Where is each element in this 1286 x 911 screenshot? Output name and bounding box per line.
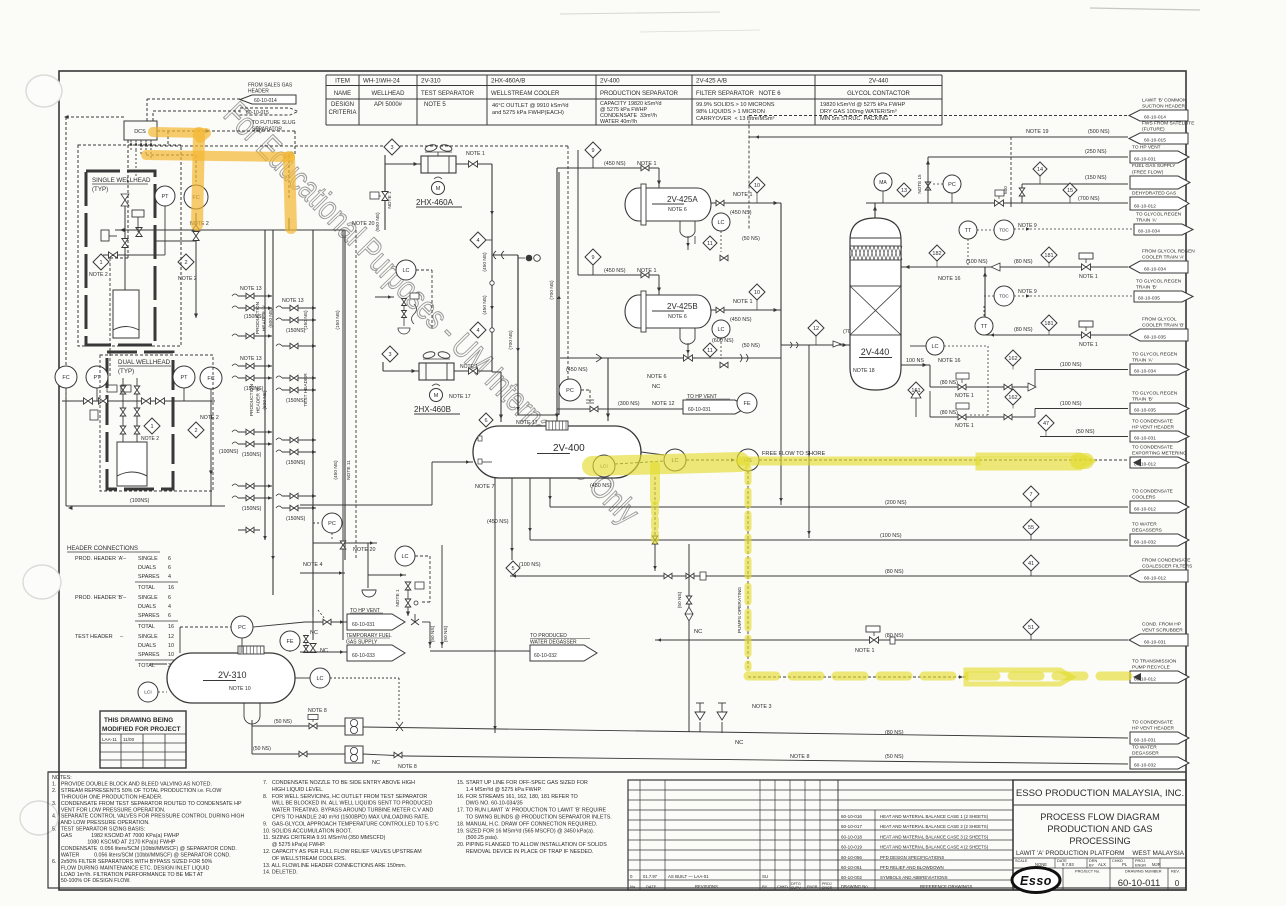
svg-text:NOTE 1: NOTE 1 — [387, 191, 393, 209]
svg-text:LC: LC — [931, 344, 938, 350]
svg-text:NOTE 18: NOTE 18 — [853, 368, 875, 374]
svg-text:(450 NS): (450 NS) — [730, 210, 752, 216]
svg-text:(600 NS): (600 NS) — [712, 338, 734, 344]
svg-text:DRN: DRN — [1089, 859, 1097, 863]
svg-text:0: 0 — [1175, 879, 1180, 888]
svg-text:ENGR: ENGR — [1135, 864, 1146, 868]
svg-text:NC: NC — [652, 384, 660, 390]
svg-text:7. CONDENSATE NOZZLE TO BE S: 7. CONDENSATE NOZZLE TO BE SIDE ENTRY AB… — [263, 780, 415, 786]
svg-text:HP VENT HEADER: HP VENT HEADER — [1132, 425, 1174, 431]
svg-text:60-10-012: 60-10-012 — [1144, 575, 1166, 581]
svg-text:(150NS): (150NS) — [286, 516, 306, 522]
svg-text:NOTE 1: NOTE 1 — [1079, 342, 1098, 348]
svg-text:BY: BY — [762, 884, 768, 889]
svg-text:11. SIZING CRITERIA 9.91 MSm³/: 11. SIZING CRITERIA 9.91 MSm³/d (350 MMS… — [263, 835, 386, 841]
svg-text:(TYP): (TYP) — [92, 186, 108, 193]
svg-text:PROJ.: PROJ. — [1135, 859, 1146, 863]
svg-text:FROM GLYCOL: FROM GLYCOL — [1142, 317, 1177, 323]
svg-text:162: 162 — [1008, 395, 1017, 401]
svg-text:TO GLYCOL REGEN: TO GLYCOL REGEN — [1132, 391, 1178, 397]
svg-text:PC: PC — [948, 182, 956, 188]
svg-text:FLOW DURING MAINTENANCE ETC. D: FLOW DURING MAINTENANCE ETC. DESIGN INLE… — [52, 865, 210, 871]
svg-text:No.: No. — [630, 884, 636, 889]
svg-text:NOTE 16: NOTE 16 — [938, 358, 960, 364]
svg-text:MJR: MJR — [1152, 862, 1161, 867]
svg-text:(600 NS): (600 NS) — [262, 390, 268, 410]
svg-text:2V-400: 2V-400 — [553, 443, 585, 454]
svg-text:19. SIZED FOR 16 MSm³/d (565 M: 19. SIZED FOR 16 MSm³/d (565 MSCFD) @ 34… — [457, 828, 594, 834]
svg-text:PRODUCTION SEPARATOR: PRODUCTION SEPARATOR — [600, 91, 679, 97]
svg-text:PC: PC — [238, 625, 246, 631]
svg-text:11: 11 — [707, 348, 713, 354]
svg-text:2. STREAM REPRESENTS 50% OF: 2. STREAM REPRESENTS 50% OF TOTAL PRODUC… — [52, 788, 221, 794]
svg-text:6: 6 — [168, 556, 171, 562]
svg-text:PROD. HEADER ‘A’–: PROD. HEADER ‘A’– — [75, 556, 126, 562]
svg-text:TO CONDENSATE: TO CONDENSATE — [1132, 445, 1173, 451]
svg-text:HEAT AND MATERIAL BALANCE CASE: HEAT AND MATERIAL BALANCE CASE 1 (2 SHEE… — [880, 814, 989, 819]
svg-text:MIN 5m STRUC. PACKING: MIN 5m STRUC. PACKING — [820, 116, 888, 122]
svg-text:DWG NO. 60-10-034/35: DWG NO. 60-10-034/35 — [457, 801, 523, 807]
svg-text:1. PROVIDE DOUBLE BLOCK AND: 1. PROVIDE DOUBLE BLOCK AND BLEED VALVIN… — [52, 781, 212, 787]
svg-text:60-10-035: 60-10-035 — [1138, 295, 1160, 301]
svg-text:TO WATER: TO WATER — [1132, 745, 1157, 751]
svg-text:60-10-031: 60-10-031 — [1134, 435, 1156, 441]
svg-text:60-10-031: 60-10-031 — [352, 622, 375, 628]
svg-text:10: 10 — [754, 183, 760, 189]
svg-text:60-10-032: 60-10-032 — [1134, 539, 1156, 545]
svg-text:FUEL GAS SUPPLY: FUEL GAS SUPPLY — [1132, 163, 1176, 169]
svg-text:181: 181 — [1044, 253, 1053, 259]
svg-text:PT: PT — [180, 375, 188, 381]
svg-text:10: 10 — [754, 290, 760, 296]
svg-text:FWS FROM SATELLITE: FWS FROM SATELLITE — [1142, 121, 1194, 127]
svg-text:NOTE 3: NOTE 3 — [752, 704, 771, 710]
svg-text:SINGLE WELLHEAD: SINGLE WELLHEAD — [92, 177, 151, 184]
svg-text:NOTES:: NOTES: — [52, 775, 72, 781]
svg-text:46°C OUTLET @ 9910 kSm³/d: 46°C OUTLET @ 9910 kSm³/d — [492, 103, 569, 109]
svg-text:16. FOR STREAMS 161, 162, 180,: 16. FOR STREAMS 161, 162, 180, 181 REFER… — [457, 794, 578, 800]
svg-text:NC: NC — [372, 760, 380, 766]
svg-text:(100NS): (100NS) — [219, 449, 239, 455]
svg-text:(450 NS): (450 NS) — [566, 367, 588, 373]
svg-text:19820 kSm³/d @ 5275 kPa FWHP: 19820 kSm³/d @ 5275 kPa FWHP — [820, 102, 906, 108]
svg-text:NOTE 5: NOTE 5 — [424, 102, 446, 108]
svg-text:NC: NC — [694, 629, 702, 635]
svg-text:(100 NS): (100 NS) — [519, 562, 541, 568]
svg-text:47: 47 — [1043, 421, 1049, 427]
svg-text:60-10-018: 60-10-018 — [841, 834, 862, 839]
svg-text:(80 NS): (80 NS) — [1014, 259, 1033, 265]
svg-text:60-10-033: 60-10-033 — [352, 653, 375, 659]
svg-text:(100 NS): (100 NS) — [1060, 401, 1082, 407]
svg-text:(80 NS): (80 NS) — [1014, 327, 1033, 333]
svg-text:(450 NS): (450 NS) — [604, 268, 626, 274]
svg-text:TT: TT — [981, 324, 988, 330]
svg-text:6: 6 — [168, 613, 171, 619]
svg-text:(450 NS): (450 NS) — [487, 519, 509, 525]
svg-text:NOTE 11: NOTE 11 — [346, 460, 352, 480]
svg-text:2V-440: 2V-440 — [869, 78, 889, 85]
svg-text:LC: LC — [316, 676, 323, 682]
svg-text:12: 12 — [813, 326, 819, 332]
svg-text:REMOVAL DEVICE IN PLACE OF TRA: REMOVAL DEVICE IN PLACE OF TRAP IF NEEDE… — [457, 849, 593, 855]
svg-text:NOTE 2: NOTE 2 — [89, 272, 108, 278]
svg-text:PL: PL — [1122, 862, 1128, 867]
svg-text:4: 4 — [476, 328, 479, 334]
svg-text:EXPORTING METERING: EXPORTING METERING — [1132, 451, 1187, 457]
svg-text:60-10-019: 60-10-019 — [841, 845, 862, 850]
svg-text:(50 NS): (50 NS) — [677, 591, 683, 608]
svg-text:Esso: Esso — [1020, 874, 1052, 888]
svg-text:60-10-034: 60-10-034 — [1138, 228, 1160, 234]
svg-text:NOTE 17: NOTE 17 — [449, 394, 471, 400]
svg-text:SCALE: SCALE — [1015, 859, 1028, 863]
svg-text:THROUGH ONE PRODUCTION HEADER.: THROUGH ONE PRODUCTION HEADER. — [52, 794, 163, 800]
svg-text:NOTE 12: NOTE 12 — [652, 401, 674, 407]
svg-text:TEST HEADER –: TEST HEADER – — [75, 634, 123, 640]
svg-text:PROD. HEADER 'B'–: PROD. HEADER 'B'– — [75, 595, 126, 601]
svg-text:NOTE 1: NOTE 1 — [637, 268, 656, 274]
svg-text:COOLER TRAIN 'A': COOLER TRAIN 'A' — [1142, 255, 1184, 261]
svg-text:10: 10 — [168, 652, 174, 658]
svg-text:HEAT AND MATERIAL BALANCE CASE: HEAT AND MATERIAL BALANCE CASE 4 (2 SHEE… — [880, 845, 989, 850]
svg-text:7: 7 — [1029, 492, 1032, 498]
svg-text:(700 NS): (700 NS) — [1078, 196, 1100, 202]
svg-text:THIS DRAWING BEING: THIS DRAWING BEING — [104, 717, 173, 724]
svg-text:60-10-015: 60-10-015 — [246, 110, 269, 116]
svg-text:NC: NC — [735, 740, 743, 746]
svg-text:LAA-11: LAA-11 — [102, 737, 117, 742]
svg-text:60-10-012: 60-10-012 — [1134, 203, 1156, 209]
svg-text:(100 NS): (100 NS) — [966, 259, 988, 265]
svg-text:TO CONDENSATE: TO CONDENSATE — [1132, 489, 1173, 495]
svg-text:(450 NS): (450 NS) — [590, 483, 612, 489]
svg-text:14. DELETED.: 14. DELETED. — [263, 870, 298, 876]
svg-text:NOTE 2: NOTE 2 — [200, 415, 219, 421]
svg-text:FC: FC — [62, 375, 69, 381]
svg-text:1: 1 — [150, 424, 153, 430]
svg-text:TDC: TDC — [999, 294, 1009, 299]
svg-text:TOTAL: TOTAL — [138, 624, 155, 630]
svg-text:SINGLE: SINGLE — [138, 556, 158, 562]
svg-text:DEGASSER: DEGASSER — [1132, 751, 1159, 757]
svg-text:TO GLYCOL REGEN: TO GLYCOL REGEN — [1136, 212, 1182, 218]
svg-text:99.9% SOLIDS > 10 MICRONS: 99.9% SOLIDS > 10 MICRONS — [696, 102, 775, 108]
svg-text:2: 2 — [184, 260, 187, 266]
svg-text:HIGH LIQUID LEVEL.: HIGH LIQUID LEVEL. — [263, 787, 324, 793]
svg-text:@ 5275 kPa(a) FWHP.: @ 5275 kPa(a) FWHP. — [263, 842, 325, 848]
svg-text:(500 NS): (500 NS) — [1088, 129, 1110, 135]
svg-text:60-10-012: 60-10-012 — [1134, 506, 1156, 512]
svg-text:(50 NS): (50 NS) — [274, 719, 292, 725]
svg-text:API 5000#: API 5000# — [374, 102, 403, 108]
svg-text:6: 6 — [484, 418, 487, 424]
svg-text:(150NS): (150NS) — [244, 386, 264, 392]
svg-text:VENT FOR LOW PRESSURE OPERATIO: VENT FOR LOW PRESSURE OPERATION. — [52, 807, 165, 813]
svg-text:98% LIQUIDS > 1 MICRON: 98% LIQUIDS > 1 MICRON — [696, 109, 765, 115]
svg-text:DUALS: DUALS — [138, 565, 156, 571]
svg-text:SUPV: SUPV — [791, 886, 801, 890]
svg-text:(FREE FLOW): (FREE FLOW) — [1132, 170, 1164, 176]
svg-text:COOLERS: COOLERS — [1132, 495, 1155, 501]
svg-text:60-10-032: 60-10-032 — [534, 653, 557, 659]
svg-text:17. TO RUN LAWIT 'A' PRODUCTIO: 17. TO RUN LAWIT 'A' PRODUCTION TO LAWIT… — [457, 808, 607, 814]
svg-text:9: 9 — [591, 148, 594, 154]
svg-text:41: 41 — [1028, 561, 1034, 567]
svg-text:DEGASSERS: DEGASSERS — [1132, 528, 1162, 534]
svg-text:DUALS: DUALS — [138, 604, 156, 610]
svg-text:LC: LC — [717, 327, 724, 333]
svg-text:LC: LC — [402, 268, 409, 274]
svg-text:TRAIN 'B': TRAIN 'B' — [1136, 285, 1157, 291]
svg-text:HEADER CONNECTIONS: HEADER CONNECTIONS — [67, 546, 138, 552]
svg-text:15: 15 — [1067, 188, 1073, 194]
svg-text:11/00: 11/00 — [123, 737, 135, 742]
svg-text:8. FOR WELL SERVICING, HC OU: 8. FOR WELL SERVICING, HC OUTLET FROM TE… — [263, 794, 427, 800]
svg-text:2V-310: 2V-310 — [218, 670, 247, 680]
svg-text:51: 51 — [1028, 625, 1034, 631]
svg-text:182: 182 — [932, 251, 941, 257]
svg-text:9: 9 — [591, 255, 594, 261]
svg-text:3: 3 — [390, 145, 393, 151]
svg-text:WILL BE BLOCKED IN. ALL WELL L: WILL BE BLOCKED IN. ALL WELL LIQUIDS SEN… — [263, 801, 432, 807]
svg-text:GAS 1982 KSCMD AT: GAS 1982 KSCMD AT 7000 KPa(a) FWHP — [52, 833, 180, 839]
svg-text:MODIFIED FOR PROJECT: MODIFIED FOR PROJECT — [102, 726, 181, 733]
svg-text:WATER TREATING. BYPASS AROUND: WATER TREATING. BYPASS AROUND TURBINE ME… — [263, 808, 433, 814]
svg-text:(50 NS): (50 NS) — [742, 236, 760, 242]
svg-text:NOTE 15: NOTE 15 — [917, 174, 922, 194]
svg-text:13. ALL FLOWLINE HEADER CONNEC: 13. ALL FLOWLINE HEADER CONNECTIONS ARE … — [263, 863, 406, 869]
svg-text:ALX: ALX — [1098, 862, 1106, 867]
svg-text:PROJECT No.: PROJECT No. — [1075, 869, 1100, 874]
svg-text:SINGLE: SINGLE — [138, 634, 158, 640]
svg-text:(100NS): (100NS) — [130, 498, 150, 504]
svg-text:PUMPS OPERATING: PUMPS OPERATING — [737, 587, 743, 634]
svg-text:NOTE 1: NOTE 1 — [466, 151, 485, 157]
svg-text:OF WELLSTREAM COOLERS.: OF WELLSTREAM COOLERS. — [263, 856, 346, 862]
svg-text:and 5275 kPa FWHP(EACH): and 5275 kPa FWHP(EACH) — [492, 110, 564, 116]
svg-text:FROM CONDENSATE: FROM CONDENSATE — [1142, 558, 1190, 564]
svg-text:WATER DEGASSER: WATER DEGASSER — [530, 640, 577, 646]
svg-text:(80 NS): (80 NS) — [940, 380, 958, 386]
svg-text:9.7.93: 9.7.93 — [1062, 862, 1074, 867]
svg-text:DATE: DATE — [646, 884, 657, 889]
svg-text:NOTE 16: NOTE 16 — [938, 276, 960, 282]
svg-text:TT: TT — [965, 228, 972, 234]
svg-text:HEADER: HEADER — [248, 89, 269, 95]
svg-text:NOTE 13: NOTE 13 — [240, 286, 262, 292]
svg-text:WEST MALAYSIA: WEST MALAYSIA — [1132, 850, 1184, 857]
svg-text:WELLSTREAM COOLER: WELLSTREAM COOLER — [491, 91, 560, 97]
svg-text:GAS SUPPLY: GAS SUPPLY — [346, 640, 378, 646]
svg-text:(450 NS): (450 NS) — [482, 252, 488, 272]
svg-text:(700 NS): (700 NS) — [549, 280, 555, 300]
svg-text:ENGR: ENGR — [822, 886, 833, 890]
svg-text:LC: LC — [401, 554, 408, 560]
svg-text:(150NS): (150NS) — [286, 328, 306, 334]
svg-text:2V-425A: 2V-425A — [667, 195, 698, 204]
svg-text:WATER 0.056 liters/SC: WATER 0.056 liters/SCM (10bbl/MMSCF) @ S… — [52, 852, 231, 858]
svg-text:NOTE 1: NOTE 1 — [395, 589, 401, 607]
svg-text:NC: NC — [310, 630, 318, 636]
svg-text:TO CONDENSATE: TO CONDENSATE — [1132, 720, 1173, 726]
svg-text:12: 12 — [168, 634, 174, 640]
svg-text:AS BUILT — LAA-01: AS BUILT — LAA-01 — [668, 874, 709, 879]
svg-text:(FUTURE): (FUTURE) — [1142, 127, 1165, 133]
svg-text:CONDENSATE 0.056 liters/SCM (: CONDENSATE 0.056 liters/SCM (10bbl/MMSCF… — [52, 846, 237, 852]
svg-text:PRODUCTION AND GAS: PRODUCTION AND GAS — [1047, 824, 1152, 834]
svg-text:(450 NS): (450 NS) — [333, 460, 339, 480]
svg-text:REVISIONS: REVISIONS — [695, 884, 718, 889]
svg-text:(100 NS): (100 NS) — [880, 533, 902, 539]
svg-text:TO GLYCOL REGEN: TO GLYCOL REGEN — [1136, 279, 1182, 285]
svg-text:100 NS: 100 NS — [906, 358, 924, 364]
svg-text:60-10-031: 60-10-031 — [1134, 156, 1156, 162]
svg-text:TRAIN 'B': TRAIN 'B' — [1132, 397, 1153, 403]
svg-text:SINGLE: SINGLE — [138, 595, 158, 601]
svg-text:M: M — [434, 393, 439, 399]
svg-text:(150NS): (150NS) — [286, 460, 306, 466]
svg-text:60-10-014: 60-10-014 — [254, 98, 277, 104]
svg-text:FREE FLOW TO SHORE: FREE FLOW TO SHORE — [762, 451, 825, 457]
svg-text:2V-310: 2V-310 — [421, 78, 441, 85]
svg-text:1: 1 — [99, 260, 102, 266]
svg-text:FROM GLYCOL REGEN: FROM GLYCOL REGEN — [1142, 249, 1195, 255]
svg-text:NOTE 8: NOTE 8 — [398, 764, 417, 770]
svg-text:ITEM: ITEM — [335, 78, 350, 85]
svg-text:PROCESS FLOW DIAGRAM: PROCESS FLOW DIAGRAM — [1040, 812, 1159, 822]
svg-text:VENT SCRUBBER: VENT SCRUBBER — [1142, 628, 1183, 634]
svg-text:ENGR: ENGR — [807, 885, 818, 889]
svg-text:TO TRANSMISSION: TO TRANSMISSION — [1132, 659, 1177, 665]
svg-text:(50 NS): (50 NS) — [430, 625, 436, 642]
svg-text:TEST SEPARATOR: TEST SEPARATOR — [421, 91, 475, 97]
svg-text:LAWIT 'A' PRODUCTION PLATFORM: LAWIT 'A' PRODUCTION PLATFORM — [1016, 850, 1124, 857]
svg-text:SPARES: SPARES — [138, 613, 160, 619]
svg-text:TO CONDENSATE: TO CONDENSATE — [1132, 419, 1173, 425]
svg-text:12. CAPACITY AS PER FULL FLOW: 12. CAPACITY AS PER FULL FLOW RELIEF VAL… — [263, 849, 422, 855]
svg-text:16: 16 — [168, 624, 174, 630]
svg-text:2HX-460A: 2HX-460A — [416, 198, 454, 207]
svg-text:NOTE 6: NOTE 6 — [668, 314, 687, 320]
svg-text:(150NS): (150NS) — [286, 398, 306, 404]
svg-text:NOTE 1: NOTE 1 — [955, 423, 974, 429]
svg-text:6. 2x50% FILTER SEPARATORS W: 6. 2x50% FILTER SEPARATORS WITH BYPASS S… — [52, 859, 213, 865]
svg-text:SUCTION HEADER: SUCTION HEADER — [1142, 104, 1185, 110]
svg-text:DUAL WELLHEAD: DUAL WELLHEAD — [118, 359, 171, 366]
svg-text:4: 4 — [476, 238, 479, 244]
svg-text:ESSO PRODUCTION MALAYSIA, INC.: ESSO PRODUCTION MALAYSIA, INC. — [1016, 788, 1184, 799]
svg-text:2HX-460B: 2HX-460B — [414, 405, 451, 414]
svg-text:NOTE 20: NOTE 20 — [352, 221, 374, 227]
svg-text:3: 3 — [388, 352, 391, 358]
svg-text:50-100% OF DESIGN FLOW.: 50-100% OF DESIGN FLOW. — [52, 878, 131, 884]
svg-text:AND LOW PRESSURE OPERATION.: AND LOW PRESSURE OPERATION. — [52, 820, 150, 826]
svg-text:(50 NS): (50 NS) — [885, 754, 904, 760]
svg-text:TO GLYCOL REGEN: TO GLYCOL REGEN — [1132, 352, 1178, 358]
svg-text:HEAT AND MATERIAL BALANCE CASE: HEAT AND MATERIAL BALANCE CASE 3 (2 SHEE… — [880, 834, 989, 839]
svg-text:DCS: DCS — [134, 129, 146, 135]
svg-text:60-10-034: 60-10-034 — [1134, 368, 1156, 374]
svg-text:TOTAL: TOTAL — [138, 585, 155, 591]
svg-text:PT: PT — [161, 194, 169, 200]
svg-text:PFD DESIGN SPECIFICATIONS: PFD DESIGN SPECIFICATIONS — [880, 855, 944, 860]
svg-text:HP VENT HEADER: HP VENT HEADER — [1132, 726, 1174, 732]
svg-text:TO PRODUCED: TO PRODUCED — [530, 633, 567, 639]
svg-text:01.7.97: 01.7.97 — [643, 874, 658, 879]
svg-text:COND. FROM HP: COND. FROM HP — [1142, 622, 1181, 628]
svg-text:(50 NS): (50 NS) — [1076, 429, 1095, 435]
svg-text:TO HP VENT: TO HP VENT — [1132, 145, 1161, 151]
svg-text:(600 NS): (600 NS) — [268, 308, 274, 328]
svg-text:(50 NS): (50 NS) — [742, 343, 760, 349]
svg-text:DESIGN: DESIGN — [331, 102, 354, 108]
svg-text:TRAIN 'A': TRAIN 'A' — [1136, 218, 1157, 224]
svg-text:1080 KSCMD AT 2170 KPa(a) FWHP: 1080 KSCMD AT 2170 KPa(a) FWHP — [52, 840, 176, 846]
svg-text:11: 11 — [707, 241, 713, 247]
svg-text:REFERENCE DRAWINGS: REFERENCE DRAWINGS — [920, 884, 972, 889]
svg-text:6: 6 — [168, 595, 171, 601]
svg-text:10: 10 — [168, 643, 174, 649]
svg-text:4: 4 — [168, 574, 171, 580]
svg-text:(250 NS): (250 NS) — [1085, 149, 1107, 155]
svg-text:(50 NS): (50 NS) — [443, 625, 449, 642]
svg-text:(450 NS): (450 NS) — [482, 295, 488, 315]
svg-text:60-10-061: 60-10-061 — [841, 865, 862, 870]
svg-text:181: 181 — [1044, 321, 1053, 327]
svg-text:GLYCOL CONTACTOR: GLYCOL CONTACTOR — [847, 91, 910, 97]
svg-text:60-10-031: 60-10-031 — [688, 407, 711, 413]
svg-text:4: 4 — [168, 604, 171, 610]
svg-text:60-10-035: 60-10-035 — [1134, 407, 1156, 413]
svg-text:(150NS): (150NS) — [242, 452, 262, 458]
svg-text:TRAIN 'A': TRAIN 'A' — [1132, 358, 1153, 364]
svg-text:16: 16 — [168, 585, 174, 591]
svg-text:3. CONDENSATE FROM TEST SEPA: 3. CONDENSATE FROM TEST SEPARATOR ROUTED… — [52, 801, 242, 807]
svg-text:2V-425B: 2V-425B — [667, 302, 698, 311]
svg-text:NOTE 9: NOTE 9 — [1018, 289, 1037, 295]
svg-text:15. START UP LINE FOR OFF-SPEC: 15. START UP LINE FOR OFF-SPEC GAS SIZED… — [457, 780, 588, 786]
svg-text:60-10-032: 60-10-032 — [1134, 762, 1156, 768]
svg-text:60-10-031: 60-10-031 — [1134, 737, 1156, 743]
svg-text:2V-425 A/B: 2V-425 A/B — [696, 78, 727, 85]
svg-text:PROCESSING: PROCESSING — [1069, 836, 1130, 846]
svg-text:MA: MA — [879, 180, 887, 186]
svg-text:5. TEST SEPARATOR SIZING BAS: 5. TEST SEPARATOR SIZING BASIS: — [52, 827, 145, 833]
svg-text:(150 NS): (150 NS) — [335, 310, 341, 330]
svg-text:2: 2 — [194, 428, 197, 434]
svg-text:60-10-035: 60-10-035 — [1144, 334, 1166, 340]
svg-text:(500 NS): (500 NS) — [375, 212, 381, 232]
svg-text:HEAT AND MATERIAL BALANCE CASE: HEAT AND MATERIAL BALANCE CASE 2 (2 SHEE… — [880, 824, 989, 829]
svg-text:60-10-002: 60-10-002 — [841, 875, 862, 880]
svg-text:(TYP): (TYP) — [118, 368, 134, 375]
svg-text:60-10-011: 60-10-011 — [1118, 878, 1161, 889]
svg-text:13: 13 — [901, 188, 907, 194]
svg-text:(700 NS): (700 NS) — [508, 330, 514, 350]
svg-text:NAME: NAME — [334, 91, 351, 97]
svg-text:(300 NS): (300 NS) — [618, 401, 640, 407]
svg-text:2V-440: 2V-440 — [861, 347, 890, 357]
svg-text:WELLHEAD: WELLHEAD — [371, 91, 405, 97]
svg-text:(150NS): (150NS) — [244, 314, 264, 320]
svg-text:NOTE 1: NOTE 1 — [733, 192, 752, 198]
svg-text:CPI'S TO HANDLE 240 m³/d (1500: CPI'S TO HANDLE 240 m³/d (1500BPD) MAX U… — [263, 815, 429, 821]
svg-text:NOTE 13: NOTE 13 — [282, 298, 304, 304]
svg-text:14: 14 — [1037, 167, 1043, 173]
svg-text:60-10-017: 60-10-017 — [841, 824, 862, 829]
svg-text:5: 5 — [511, 566, 514, 572]
